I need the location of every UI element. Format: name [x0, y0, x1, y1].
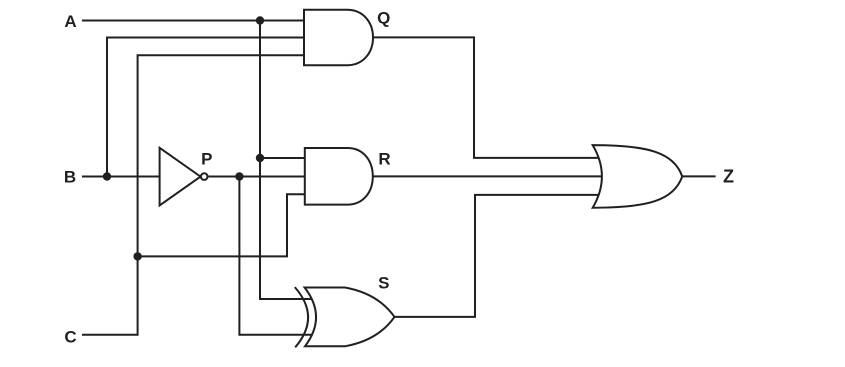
svg-text:Z: Z [723, 166, 734, 186]
wire R output to OR middle input and Z output [371, 175, 715, 177]
junction on A line [256, 16, 264, 24]
svg-text:Q: Q [377, 8, 390, 27]
wire input B horizontal [83, 176, 160, 178]
inverter bubble [201, 173, 208, 180]
wire branch A to AND R top input [260, 157, 306, 159]
xor-gate S outer input arc [295, 287, 308, 347]
xor-gate S body [305, 288, 395, 347]
wire input C horizontal and riser to AND Q third input [83, 55, 305, 335]
wire S output to OR bottom input [393, 195, 602, 317]
svg-text:R: R [378, 150, 390, 169]
svg-text:S: S [378, 274, 389, 293]
wire node P to AND R middle input [208, 176, 307, 178]
svg-text:A: A [64, 12, 76, 31]
or-gate Z [593, 145, 683, 208]
svg-text:P: P [201, 150, 212, 169]
junction on A vertical at R input [256, 154, 264, 162]
inverter triangle (output P) [160, 148, 201, 206]
junction on B line [103, 172, 111, 180]
svg-text:B: B [64, 168, 76, 187]
wire Q output to OR top input [371, 37, 602, 157]
wire A vertical drop to XOR top input [260, 21, 313, 300]
junction on C vertical [133, 252, 141, 260]
wire C branch to AND R bottom input [138, 194, 306, 256]
and-gate Q [304, 10, 373, 66]
wire input A horizontal [83, 20, 305, 22]
wire B up-and-over to AND Q second input [107, 38, 305, 177]
svg-text:C: C [64, 327, 76, 346]
and-gate R [305, 148, 373, 205]
wire P vertical drop to XOR bottom input [239, 177, 313, 335]
junction at node P [235, 172, 243, 180]
